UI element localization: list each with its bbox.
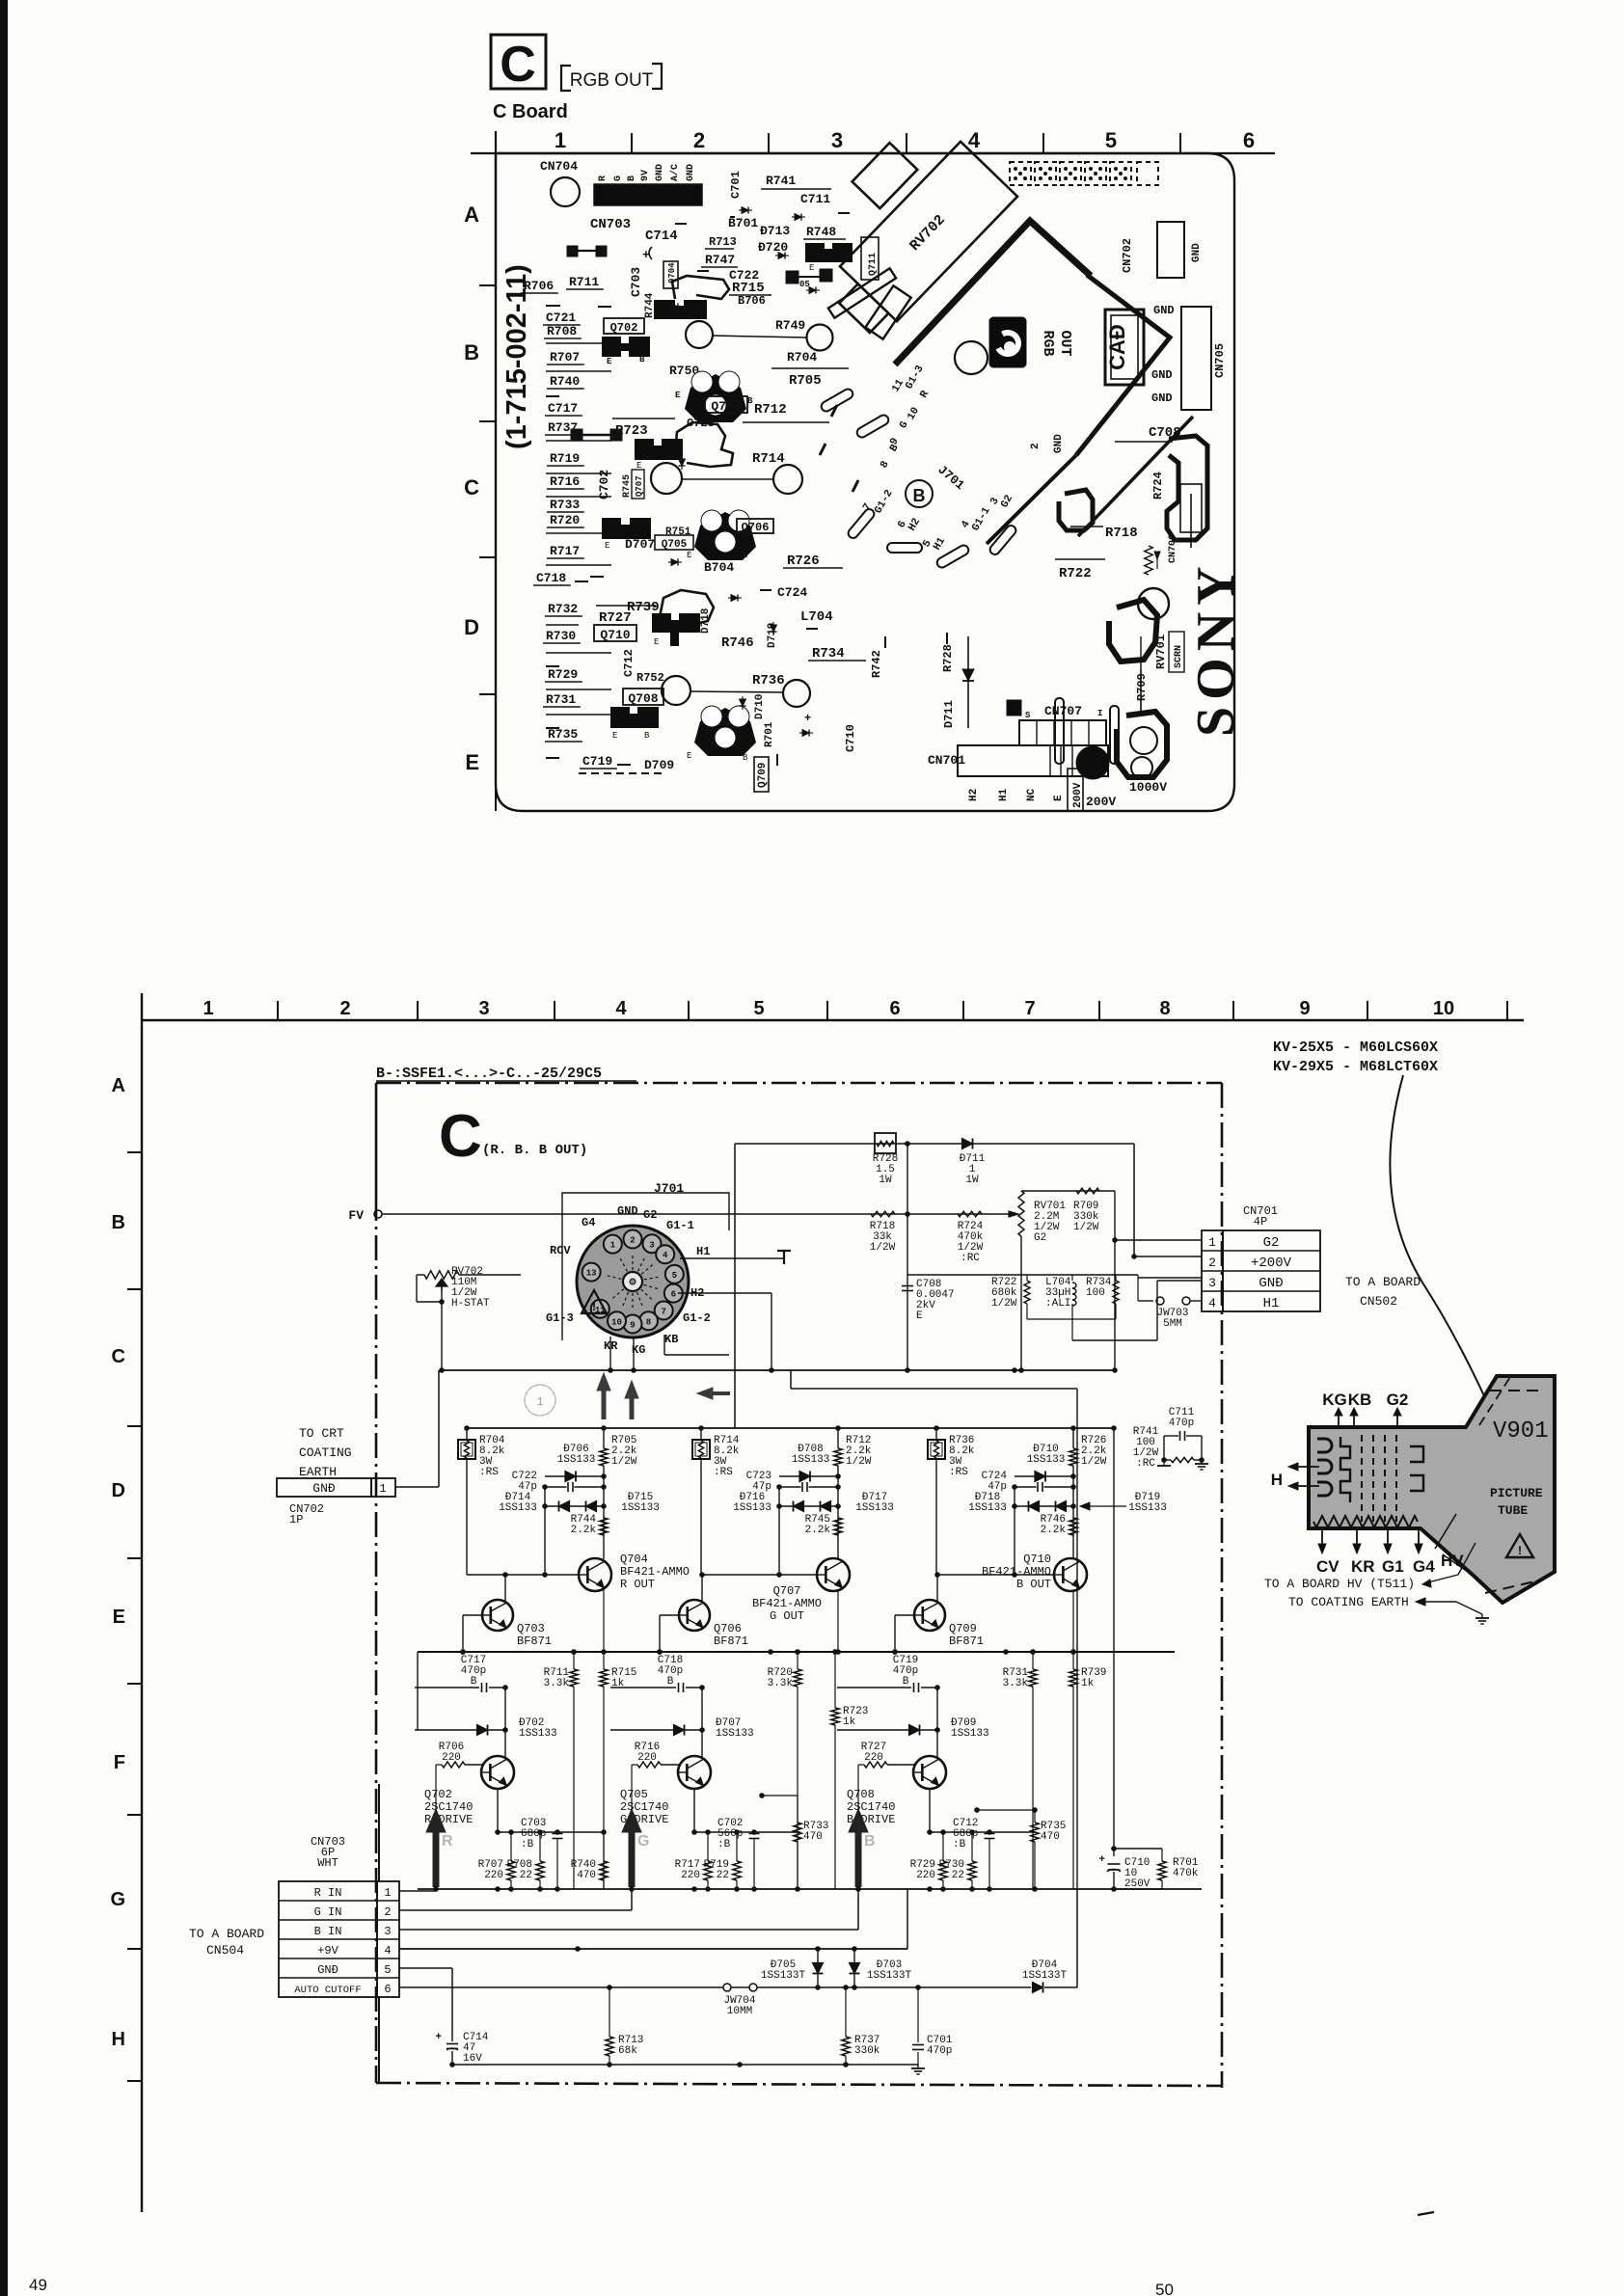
svg-text:R736: R736	[752, 673, 785, 689]
wire bus under socket	[442, 1369, 1115, 1371]
connector CN701 pcb	[958, 745, 1108, 776]
wire 200v row	[907, 1274, 1138, 1276]
svg-text:TO A BOARD HV (T511): TO A BOARD HV (T511)	[1264, 1577, 1415, 1591]
label B circle	[906, 480, 933, 507]
svg-text:6: 6	[384, 1983, 391, 1996]
svg-text:C702: C702	[597, 470, 611, 500]
svg-text:B OUT: B OUT	[1016, 1578, 1051, 1591]
svg-text:BF421-AMMO: BF421-AMMO	[620, 1565, 690, 1579]
resistor R728	[875, 1133, 896, 1153]
svg-text:G1-2: G1-2	[683, 1311, 711, 1325]
svg-text:E: E	[1053, 795, 1065, 801]
svg-text:RGB: RGB	[1040, 330, 1056, 356]
board designator box C	[491, 35, 546, 89]
resistor R745	[834, 1518, 842, 1535]
svg-text:49: 49	[29, 2276, 47, 2294]
label Q705 box	[655, 535, 693, 550]
svg-text:1SS133T: 1SS133T	[867, 1970, 912, 1982]
svg-text:R735: R735	[548, 727, 578, 742]
svg-text:GND: GND	[1053, 434, 1065, 453]
resistor R711	[570, 1669, 578, 1687]
svg-text:1k: 1k	[843, 1716, 856, 1728]
svg-text:50: 50	[1155, 2281, 1174, 2296]
resistor R740	[600, 1861, 608, 1880]
svg-text:8: 8	[646, 1317, 651, 1327]
resistor R705	[600, 1448, 608, 1466]
transistor Q702	[481, 1756, 514, 1789]
svg-text:D: D	[464, 615, 479, 639]
trace bracket right	[1076, 275, 1170, 455]
svg-text:H1: H1	[696, 1245, 710, 1258]
arrow KR	[602, 1389, 607, 1419]
transistor R748 blob	[805, 243, 853, 262]
warning triangle socket	[582, 1290, 607, 1313]
trace chevron thick	[895, 221, 1091, 365]
black cap square	[1007, 700, 1021, 716]
wire rail R	[466, 1428, 468, 1440]
tube getter zigzag	[1313, 1516, 1418, 1527]
svg-text:BF871: BF871	[714, 1634, 748, 1648]
svg-text:GNÐ: GNÐ	[317, 1963, 338, 1977]
svg-text:B701: B701	[728, 216, 758, 230]
svg-text:Q703: Q703	[711, 399, 741, 414]
transistor Q706	[679, 1600, 710, 1631]
svg-text:G OUT: G OUT	[770, 1609, 804, 1623]
svg-text:RGB OUT: RGB OUT	[570, 70, 654, 91]
svg-text:1SS133T: 1SS133T	[1022, 1970, 1068, 1982]
svg-text:Q702: Q702	[424, 1788, 452, 1801]
svg-text:FV: FV	[348, 1208, 364, 1223]
pads B705	[786, 271, 798, 284]
wire pot down	[441, 1302, 443, 1370]
svg-text:2: 2	[693, 128, 705, 152]
svg-text:R720: R720	[550, 513, 580, 527]
svg-text:1: 1	[1208, 1235, 1216, 1250]
svg-text:3: 3	[1208, 1276, 1216, 1290]
svg-text:EARTH: EARTH	[299, 1465, 337, 1479]
curve to tube	[1390, 1075, 1504, 1442]
svg-text:R OUT: R OUT	[620, 1578, 655, 1591]
wire B IN	[399, 1929, 858, 1931]
svg-text:1SS133: 1SS133	[968, 1502, 1007, 1514]
svg-text:CN704: CN704	[540, 159, 578, 174]
resistor R730	[968, 1861, 976, 1880]
svg-text:G IN: G IN	[314, 1905, 342, 1919]
svg-text:R726: R726	[787, 554, 820, 569]
svg-text:D: D	[112, 1480, 125, 1501]
svg-text:GND: GND	[1153, 304, 1175, 317]
jumper JW703	[1138, 1300, 1153, 1302]
small slants	[831, 405, 837, 417]
svg-text:7: 7	[661, 1308, 665, 1317]
svg-text:B: B	[464, 340, 479, 365]
svg-text:1W: 1W	[965, 1175, 979, 1186]
svg-text:RCV: RCV	[550, 1244, 571, 1257]
svg-text:1/2W: 1/2W	[870, 1242, 896, 1254]
svg-text:R: R	[598, 176, 609, 181]
diode D705	[817, 1949, 819, 1987]
svg-text:250V: 250V	[1124, 1878, 1150, 1890]
svg-text:GNÐ: GNÐ	[1259, 1276, 1283, 1291]
grid ruler bottom section	[142, 1019, 1524, 1021]
svg-text::B: :B	[521, 1839, 534, 1850]
resistor R712	[834, 1448, 842, 1466]
label Q703 box	[705, 396, 747, 413]
diode Ð707	[610, 1729, 702, 1731]
svg-text:1/2W: 1/2W	[611, 1456, 637, 1468]
svg-text:B706: B706	[738, 294, 766, 308]
transistor Q705	[678, 1756, 711, 1789]
pad circle R736	[783, 680, 810, 707]
svg-text:Q704: Q704	[620, 1553, 648, 1566]
svg-text:G1: G1	[1382, 1557, 1404, 1576]
svg-text:1SS133: 1SS133	[519, 1728, 557, 1740]
svg-text:KG: KG	[1322, 1391, 1347, 1409]
resistor R723	[831, 1708, 839, 1725]
svg-text:1P: 1P	[289, 1513, 303, 1526]
svg-text:E: E	[612, 731, 617, 741]
svg-text:1SS133: 1SS133	[1027, 1454, 1066, 1466]
pad circle Q704 left	[651, 463, 682, 494]
svg-text:1: 1	[536, 1395, 543, 1409]
svg-text:Q710: Q710	[600, 628, 630, 642]
transistor Q707 pads	[602, 518, 651, 539]
svg-text:6: 6	[671, 1290, 676, 1300]
svg-text:A/C: A/C	[669, 164, 681, 181]
transistor Q704	[579, 1558, 611, 1591]
svg-text:CN705: CN705	[1213, 343, 1227, 378]
svg-text:H-STAT: H-STAT	[451, 1298, 490, 1310]
capacitor C708	[907, 1279, 908, 1370]
C board outline	[496, 153, 1234, 811]
jumper link 2	[567, 246, 578, 257]
svg-text:+9V: +9V	[317, 1944, 338, 1958]
svg-text:+: +	[804, 712, 811, 725]
svg-text:L704: L704	[800, 609, 833, 625]
svg-text:AUTO CUTOFF: AUTO CUTOFF	[294, 1985, 361, 1996]
capacitor C710 block	[1114, 1848, 1162, 1850]
resistor R726	[1069, 1448, 1077, 1466]
capacitor black circle	[1076, 746, 1109, 779]
svg-text:9: 9	[1299, 998, 1310, 1019]
svg-text:3.3k: 3.3k	[544, 1678, 570, 1689]
svg-text:B: B	[743, 753, 748, 763]
svg-text:G2: G2	[1387, 1391, 1409, 1409]
svg-text:Ð713: Ð713	[760, 224, 790, 238]
svg-text:GND: GND	[617, 1204, 638, 1218]
svg-text:Q705: Q705	[620, 1788, 648, 1801]
svg-text:Q703: Q703	[517, 1622, 545, 1635]
svg-text:R IN: R IN	[314, 1886, 342, 1900]
svg-text:220: 220	[484, 1870, 503, 1881]
transistor Q709 blob pair	[610, 707, 659, 728]
pot RV701	[1018, 1191, 1024, 1236]
svg-text:Q706: Q706	[714, 1622, 742, 1635]
arrow B input	[855, 1828, 862, 1887]
svg-text:5: 5	[384, 1963, 391, 1977]
wire left border lower	[378, 1784, 380, 1881]
svg-text:(R. B. B OUT): (R. B. B OUT)	[482, 1143, 587, 1158]
svg-text:R728: R728	[941, 644, 955, 672]
diode marks bottom left	[668, 304, 682, 311]
svg-text::RS: :RS	[714, 1467, 733, 1478]
CN footprint dashed pads	[1010, 162, 1031, 185]
wire R IN	[399, 1890, 436, 1892]
transistor Q710 pads	[652, 613, 700, 646]
resistor R708	[536, 1861, 544, 1880]
tube pin labels bottom	[1321, 1528, 1323, 1548]
wire collector Q703	[504, 1688, 506, 1757]
svg-text:Q705: Q705	[662, 539, 688, 551]
pad circle scrn	[1138, 588, 1169, 619]
inductor L704	[1072, 1283, 1076, 1288]
resistor R724	[958, 1211, 982, 1217]
box CAD	[1105, 310, 1144, 385]
picture tube V901 body	[1309, 1376, 1555, 1603]
connector CN701 table	[1202, 1230, 1223, 1311]
svg-text:G1-3: G1-3	[546, 1311, 574, 1325]
svg-text:22: 22	[520, 1870, 532, 1881]
svg-text:2: 2	[1030, 443, 1042, 449]
svg-text:+200V: +200V	[1251, 1256, 1292, 1271]
svg-text:1/2W: 1/2W	[991, 1298, 1017, 1310]
resistor R718	[871, 1211, 895, 1217]
svg-text:B: B	[747, 396, 753, 406]
svg-text:E: E	[607, 357, 612, 366]
svg-text:GND: GND	[686, 164, 696, 181]
svg-text:R740: R740	[550, 374, 580, 389]
svg-text:1/2W: 1/2W	[1073, 1222, 1099, 1233]
svg-text:2.2k: 2.2k	[571, 1525, 597, 1536]
connector CN703 table	[279, 1881, 377, 1997]
transistor Q709	[914, 1600, 945, 1631]
svg-text:G2: G2	[1263, 1235, 1280, 1251]
jumper link	[571, 429, 582, 441]
svg-text:KV-29X5 - M68LCT60X: KV-29X5 - M68LCT60X	[1273, 1059, 1438, 1075]
wire base Q704	[544, 1487, 546, 1575]
svg-text:TUBE: TUBE	[1498, 1503, 1528, 1518]
svg-text:A: A	[464, 203, 479, 227]
svg-text:1SS133: 1SS133	[499, 1502, 537, 1514]
svg-text:KB: KB	[1348, 1391, 1372, 1409]
svg-text:D711: D711	[942, 700, 956, 728]
svg-text:05: 05	[799, 280, 810, 289]
resistor R709	[1076, 1188, 1099, 1194]
svg-text:470: 470	[577, 1870, 596, 1881]
svg-text:NC: NC	[1026, 788, 1038, 801]
svg-text:1: 1	[555, 128, 566, 152]
gnd rail	[418, 1888, 1202, 1890]
svg-text:KB: KB	[664, 1333, 678, 1346]
svg-text:Q709: Q709	[949, 1622, 977, 1635]
svg-text:B: B	[913, 486, 926, 505]
svg-text:Q708: Q708	[628, 691, 658, 706]
tube warning triangle	[1506, 1534, 1533, 1557]
pad trace pentagon B	[675, 422, 733, 467]
potentiometer RV702 sch	[424, 1271, 459, 1279]
resistor R720	[794, 1669, 801, 1687]
resistor R737	[845, 1987, 847, 2037]
svg-text:1: 1	[203, 998, 213, 1019]
svg-text:200V: 200V	[1086, 795, 1116, 809]
svg-text::RC: :RC	[1136, 1458, 1155, 1470]
svg-text:B: B	[743, 551, 748, 560]
svg-text:220: 220	[864, 1752, 883, 1764]
svg-text:1/2W: 1/2W	[1081, 1456, 1107, 1468]
svg-text:330k: 330k	[854, 2045, 880, 2057]
svg-text:CN701: CN701	[928, 753, 965, 768]
wire pin2 200v	[1138, 1277, 1202, 1279]
transistor Q710	[1054, 1558, 1087, 1591]
svg-text:470: 470	[1041, 1831, 1060, 1843]
svg-text:CN504: CN504	[206, 1943, 244, 1958]
capacitor C722	[545, 1486, 567, 1488]
svg-text:C: C	[500, 37, 536, 93]
svg-text:1: 1	[384, 1886, 391, 1900]
svg-text:E: E	[809, 263, 814, 273]
svg-text:C710: C710	[844, 724, 857, 752]
svg-text:BF871: BF871	[949, 1634, 984, 1648]
svg-text:G4: G4	[1413, 1557, 1435, 1576]
svg-text:J701: J701	[654, 1181, 684, 1196]
svg-text:C: C	[439, 1103, 482, 1170]
svg-text:2SC1740: 2SC1740	[620, 1800, 668, 1814]
svg-text:C701: C701	[729, 171, 743, 199]
svg-text:1SS133: 1SS133	[1128, 1502, 1167, 1514]
label Q711 box	[861, 237, 879, 280]
svg-text:4P: 4P	[1254, 1215, 1267, 1229]
svg-text:GND: GND	[655, 164, 665, 181]
svg-text:1SS133: 1SS133	[792, 1454, 830, 1466]
svg-text:R724: R724	[1151, 472, 1165, 500]
wire emitter Q708	[929, 1789, 931, 1832]
svg-text:200V: 200V	[1072, 782, 1084, 808]
svg-text:Q709: Q709	[757, 763, 769, 788]
svg-text:S: S	[1025, 711, 1031, 720]
svg-text:2.2k: 2.2k	[1041, 1525, 1067, 1536]
svg-text::ALI: :ALI	[1045, 1298, 1070, 1310]
svg-text:E: E	[465, 750, 479, 774]
svg-text:1/2W: 1/2W	[846, 1456, 872, 1468]
tube cathodes	[1340, 1437, 1350, 1502]
svg-text:2: 2	[1208, 1256, 1216, 1270]
svg-text:D718: D718	[700, 608, 712, 634]
svg-text:CN702: CN702	[1121, 238, 1134, 273]
label C718 dash	[590, 576, 604, 578]
resistor R744	[600, 1518, 608, 1535]
svg-text:100: 100	[1086, 1287, 1105, 1299]
diode Ð702	[415, 1729, 505, 1731]
svg-text::RS: :RS	[479, 1467, 499, 1478]
svg-text:8: 8	[1159, 998, 1170, 1019]
svg-text:470: 470	[803, 1831, 823, 1843]
svg-text:D709: D709	[644, 758, 674, 772]
arrow left	[711, 1391, 730, 1395]
svg-text:SONY: SONY	[1186, 559, 1246, 737]
svg-text:TO COATING EARTH: TO COATING EARTH	[1288, 1595, 1409, 1609]
svg-text:1SS133: 1SS133	[855, 1502, 894, 1514]
svg-text:CN502: CN502	[1360, 1294, 1397, 1309]
svg-text:R747: R747	[705, 253, 735, 267]
svg-text:BF871: BF871	[517, 1634, 552, 1648]
svg-text:3: 3	[478, 998, 489, 1019]
svg-text:R707: R707	[550, 350, 580, 365]
diode D704	[1033, 1983, 1043, 1993]
grid ruler top section	[471, 152, 1275, 154]
svg-text:B-:SSFE1.<...>-C..-25/29C5: B-:SSFE1.<...>-C..-25/29C5	[376, 1066, 602, 1082]
tube anode	[1410, 1446, 1423, 1491]
svg-text:+: +	[435, 2032, 442, 2043]
wire emitter Q702	[497, 1789, 499, 1832]
pad circle R749 pair	[686, 321, 713, 348]
svg-text:470k: 470k	[1173, 1868, 1199, 1879]
trace diag low	[987, 455, 1076, 544]
svg-text::RC: :RC	[961, 1253, 980, 1264]
svg-text:!: !	[590, 1300, 598, 1314]
logo C RGB OUT	[989, 317, 1026, 367]
svg-text:R729: R729	[548, 667, 578, 682]
svg-text:!: !	[1516, 1544, 1524, 1558]
svg-text:TO A BOARD: TO A BOARD	[189, 1927, 264, 1941]
capacitor C701	[917, 1987, 919, 2042]
svg-text::RS: :RS	[949, 1467, 968, 1478]
svg-text:F: F	[114, 1752, 125, 1773]
svg-text:R709: R709	[1135, 673, 1149, 701]
trace diag upper right	[1078, 417, 1193, 536]
capacitor C714	[451, 2036, 453, 2041]
diode D711 pcb	[967, 636, 969, 728]
svg-text:Q707: Q707	[773, 1584, 801, 1598]
transistor Q707	[817, 1558, 850, 1591]
svg-text:B: B	[903, 1676, 909, 1688]
tube heater	[1317, 1439, 1332, 1496]
pad cluster R724	[1167, 436, 1207, 540]
svg-text:4: 4	[615, 998, 627, 1019]
svg-text:R711: R711	[569, 275, 599, 289]
svg-text:D707: D707	[625, 537, 655, 552]
resistor R707	[507, 1861, 515, 1880]
pad octagon upper	[1109, 600, 1157, 662]
svg-text:R701: R701	[764, 721, 775, 747]
svg-text:9V: 9V	[640, 170, 651, 181]
svg-text:B: B	[471, 1676, 477, 1688]
pad trace pentagon A	[672, 276, 729, 299]
svg-text::B: :B	[953, 1839, 966, 1850]
svg-text:GND: GND	[1151, 368, 1173, 382]
svg-text:R742: R742	[870, 650, 883, 678]
svg-text:H1: H1	[1263, 1296, 1280, 1311]
svg-text:B: B	[864, 1833, 876, 1850]
svg-text:2SC1740: 2SC1740	[847, 1800, 895, 1814]
svg-text:5: 5	[1105, 128, 1117, 152]
svg-text:BF421-AMMO: BF421-AMMO	[752, 1597, 822, 1610]
svg-text:22: 22	[717, 1870, 729, 1881]
svg-text:G: G	[637, 1833, 649, 1850]
svg-text:16V: 16V	[463, 2053, 482, 2065]
svg-text:A: A	[112, 1075, 125, 1096]
transistor Q701 blob	[654, 300, 707, 319]
svg-text:10: 10	[1433, 998, 1454, 1019]
resistor R731	[1029, 1669, 1037, 1687]
svg-text:PICTURE: PICTURE	[1490, 1486, 1543, 1500]
svg-text:E: E	[687, 751, 691, 761]
resistor R734	[1113, 1281, 1119, 1304]
svg-text:G2: G2	[1034, 1232, 1046, 1244]
svg-text:Q710: Q710	[1023, 1553, 1051, 1566]
svg-text:G1-1: G1-1	[666, 1219, 694, 1232]
wire collector Q706	[701, 1688, 703, 1757]
resistor R704 fusible	[458, 1440, 475, 1459]
